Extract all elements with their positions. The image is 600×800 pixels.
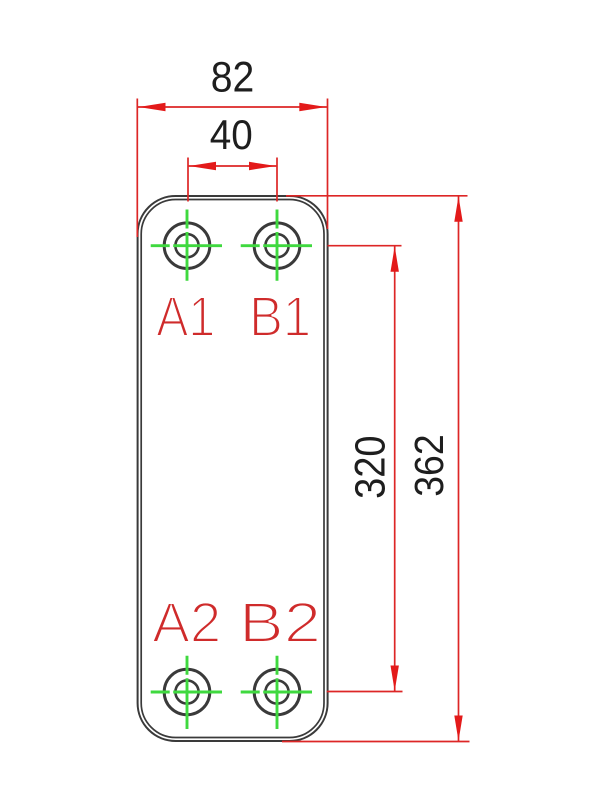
svg-text:320: 320 bbox=[348, 435, 395, 499]
svg-text:A2: A2 bbox=[152, 591, 221, 654]
svg-text:B2: B2 bbox=[239, 591, 321, 654]
svg-text:A1: A1 bbox=[156, 285, 215, 348]
svg-text:362: 362 bbox=[406, 434, 452, 497]
svg-text:B1: B1 bbox=[249, 285, 311, 348]
svg-text:40: 40 bbox=[210, 111, 253, 158]
svg-text:82: 82 bbox=[211, 54, 255, 102]
